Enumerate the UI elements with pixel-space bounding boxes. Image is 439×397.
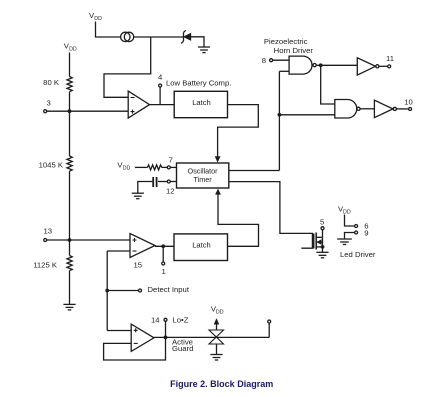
wire riser to horn gates (278, 71, 280, 170)
oscillator timer block (177, 163, 229, 188)
svg-text:Guard: Guard (172, 344, 193, 353)
wire MOSFET source to ground (322, 237, 324, 252)
svg-text:Latch: Latch (192, 98, 211, 107)
power VDD (LED driver) (338, 205, 351, 216)
pin 8 (262, 56, 289, 65)
svg-text:Detect Input: Detect Input (148, 285, 190, 294)
junction node at pin 3 (68, 109, 72, 113)
transistor Q1 (LED driver MOSFET) (314, 233, 323, 250)
svg-text:Low Battery Comp.: Low Battery Comp. (166, 79, 231, 88)
label 80 K (43, 78, 60, 87)
junction node at pin 13 (68, 238, 72, 242)
svg-text:Lo•Z: Lo•Z (173, 316, 189, 325)
pin 6 (345, 215, 369, 231)
wire VDD to resistor R4 (135, 166, 148, 168)
svg-text:DD: DD (216, 310, 224, 316)
svg-text:13: 13 (44, 227, 53, 236)
resistor R4 (148, 165, 162, 170)
pin 13 (44, 227, 69, 242)
junction node gate G1 output (319, 63, 323, 67)
resistor R2 (67, 156, 72, 171)
inverter A1 (357, 58, 379, 75)
svg-text:10: 10 (404, 97, 413, 106)
svg-text:12: 12 (166, 187, 175, 196)
ground (LED driver) (337, 239, 352, 245)
svg-text:DD: DD (123, 166, 131, 172)
wire junction to zener (151, 36, 184, 38)
wire gate G2 lower input (279, 114, 334, 116)
wire U3 output (154, 336, 269, 338)
wire latch L2 to oscillator bottom (with arrow) (215, 189, 258, 247)
wire R1 to node 3 (69, 92, 71, 112)
pin: detect input (107, 285, 190, 294)
power VDD (guard clamp) (211, 305, 224, 316)
pin 12 (158, 180, 177, 196)
capacitor C1 (153, 177, 156, 187)
label 1045 K (39, 161, 64, 170)
junction node detect input (105, 289, 109, 293)
wire node 3 to resistor R2 (69, 111, 71, 156)
svg-text:80 K: 80 K (43, 78, 60, 87)
NAND gate G2 (335, 100, 360, 119)
wire latch L1 to oscillator (with arrow) (215, 105, 259, 163)
svg-text:Horn Driver: Horn Driver (274, 46, 314, 55)
ground (MOSFET) (316, 252, 328, 257)
wire U2 minus input (107, 250, 130, 252)
junction node U3 output (164, 336, 168, 340)
wire G2 output to inverter A2 (360, 108, 374, 110)
svg-text:1125 K: 1125 K (33, 261, 58, 270)
wire G1 output to inverter A1 (316, 64, 357, 66)
comparator U2 (detect) (130, 234, 155, 270)
junction node MOSFET source (321, 245, 325, 249)
latch L2 (174, 234, 228, 261)
svg-text:4: 4 (158, 73, 163, 82)
current source CS1 (121, 32, 130, 41)
pin 5 (320, 218, 324, 238)
svg-text:14: 14 (151, 316, 160, 325)
wire VDD to current source (96, 22, 121, 38)
op-amp U3 (active guard) (131, 324, 154, 351)
inverter A2 (374, 100, 396, 117)
junction node gate G2 lower input (278, 113, 282, 117)
power VDD (oscillator) (117, 161, 130, 172)
pin 14 (151, 316, 189, 338)
resistor R1 (67, 77, 72, 92)
svg-text:9: 9 (364, 229, 368, 238)
wire node 13 to comparator U2 plus input (70, 239, 131, 241)
svg-text:DD: DD (94, 16, 102, 22)
wire current source to junction (134, 36, 151, 38)
wire U1 output to latch L1 (150, 104, 175, 106)
junction node U2 output (161, 244, 165, 248)
svg-text:1: 1 (162, 267, 166, 276)
pin 4 (158, 73, 163, 105)
clamp diodes (guard) (209, 318, 224, 354)
comparator U1 (low battery) (128, 91, 149, 118)
NAND gate G1 (289, 56, 316, 74)
svg-text:8: 8 (262, 56, 266, 65)
wire capacitor to ground (138, 182, 153, 194)
svg-text:DD: DD (69, 46, 77, 52)
wire junction to comparator minus input (104, 37, 151, 97)
pin 3 (44, 99, 68, 113)
svg-text:15: 15 (134, 261, 143, 270)
svg-text:Timer: Timer (194, 175, 213, 184)
label Led Driver (340, 250, 376, 259)
wire gate G1 lower input (279, 70, 289, 72)
wire oscillator out2 to MOSFET gate (229, 182, 313, 249)
wire node 3 to comparator plus input (70, 110, 129, 112)
svg-text:7: 7 (169, 156, 173, 165)
label 1125 K (33, 261, 58, 270)
ground (capacitor) (132, 193, 144, 199)
wire zener to ground (191, 37, 205, 47)
power VDD (current source branch) (89, 11, 102, 22)
ground (zener) (198, 47, 210, 53)
svg-text:Figure 2. Block Diagram: Figure 2. Block Diagram (170, 379, 273, 389)
svg-text:3: 3 (47, 99, 51, 108)
pin 7 (162, 156, 177, 169)
wire R3 to ground (69, 271, 71, 305)
pin (guard output) (268, 320, 271, 337)
pin 9 (345, 229, 369, 240)
wire U2 output to latch L2 (155, 245, 174, 247)
wire U3 minus feedback loop (104, 337, 166, 360)
power VDD (divider top) (64, 41, 77, 52)
ground (guard) (210, 355, 222, 361)
wire VDD to resistor R1 (69, 53, 71, 77)
svg-text:5: 5 (320, 218, 324, 227)
wire detect bus (down to active guard) (106, 251, 108, 331)
latch L1 (174, 91, 227, 117)
label Piezoelectric Horn Driver (264, 37, 313, 55)
svg-text:11: 11 (386, 54, 394, 63)
svg-text:Piezoelectric: Piezoelectric (264, 37, 308, 46)
pin 11 (379, 54, 394, 68)
svg-text:1045 K: 1045 K (39, 161, 64, 170)
wire R2 to node 13 (69, 171, 71, 240)
wire U3 plus input (107, 330, 131, 332)
zener diode D1 (181, 30, 190, 43)
resistor R3 (67, 256, 72, 271)
pin 10 (396, 97, 412, 110)
pin 1 (162, 246, 166, 276)
svg-text:Latch: Latch (192, 241, 211, 250)
wire G1 output to gate G2 upper input (321, 65, 335, 104)
svg-text:Led Driver: Led Driver (340, 250, 376, 259)
label Active Guard (172, 338, 193, 354)
label Low Battery Comp. (166, 79, 231, 88)
wire oscillator out1 (229, 170, 280, 172)
ground (divider) (63, 304, 75, 310)
wire node 13 to resistor R3 (69, 240, 71, 256)
